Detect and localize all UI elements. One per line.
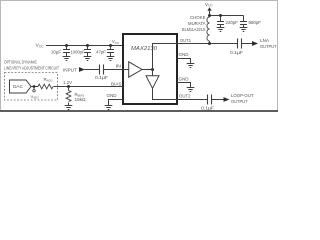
svg-text:1000pF: 1000pF: [71, 49, 85, 54]
ground: [84, 56, 92, 58]
capacitor C 0.1uF input coupling: [99, 65, 101, 75]
node junction: [86, 44, 89, 47]
node 220pF junction: [219, 14, 222, 17]
wire bias net: [54, 86, 124, 88]
ground under RBIAS: [65, 105, 73, 107]
svg-text:OUTPUT: OUTPUT: [231, 99, 248, 105]
figure bottom rule: [0, 110, 278, 112]
ground: [63, 56, 71, 58]
svg-text:OPTIONAL DYNAMIC: OPTIONAL DYNAMIC: [4, 60, 37, 65]
node LOOP-OUT OUTPUT: [224, 97, 230, 102]
svg-text:DAC: DAC: [13, 84, 23, 90]
amplifier A2 loop-out buffer: [146, 76, 159, 89]
wire VCC right rail: [210, 15, 244, 17]
svg-text:LNA: LNA: [260, 38, 270, 44]
wire to loop-out arrow: [212, 99, 224, 101]
ground: [107, 56, 115, 58]
svg-text:OUTPUT: OUTPUT: [260, 44, 277, 50]
svg-text:10µF: 10µF: [51, 49, 61, 54]
wire DAC output: [31, 86, 38, 88]
wire OUT2: [177, 99, 208, 101]
svg-text:INPUT: INPUT: [63, 67, 77, 73]
DAC U2: [10, 80, 32, 93]
node VADJ junction: [33, 85, 36, 88]
wire to OUT2: [153, 88, 178, 99]
wire to OUT1: [153, 44, 178, 76]
capacitor 1000pF bypass: [87, 46, 89, 50]
svg-text:LINEARITY ADJUSTMENT CIRCUIT: LINEARITY ADJUSTMENT CIRCUIT: [4, 66, 59, 71]
svg-text:LOOP-OUT: LOOP-OUT: [231, 93, 254, 99]
ground right 1: [187, 63, 195, 65]
svg-text:OUT2: OUT2: [179, 94, 191, 100]
capacitor 10&#181;F bypass: [66, 46, 68, 50]
svg-text:MURATA: MURATA: [188, 21, 206, 26]
capacitor C 680pF: [243, 16, 245, 22]
wire GND1 stub: [177, 59, 191, 64]
amplifier A1 LNA: [129, 62, 142, 77]
dashed box optional circuit: [5, 73, 58, 101]
wire to IN pin: [104, 69, 129, 71]
wire LNA output: [242, 43, 252, 45]
capacitor C 0.1uF LNA output coupling: [237, 39, 239, 49]
inductor L1 choke: [207, 17, 210, 41]
svg-text:BLM11A221S: BLM11A221S: [182, 27, 206, 32]
wire input: [85, 69, 100, 71]
wire left GND stub: [109, 100, 124, 106]
wire OUT1: [177, 43, 237, 45]
svg-text:IN: IN: [116, 63, 122, 69]
ground under 680pF: [240, 27, 248, 29]
node internal junction: [151, 68, 154, 71]
node junction: [109, 44, 112, 47]
wire GND2 stub: [177, 83, 191, 88]
svg-text:GND: GND: [179, 76, 189, 82]
svg-text:MAX2130: MAX2130: [131, 46, 158, 52]
ground under 220pF: [217, 27, 225, 29]
capacitor C 0.1uF loop-out coupling: [207, 95, 209, 105]
node junction: [65, 44, 68, 47]
svg-text:0.1µF: 0.1µF: [230, 50, 243, 55]
svg-text:0.1µF: 0.1µF: [95, 75, 108, 80]
svg-text:0.1µF: 0.1µF: [201, 105, 214, 110]
figure frame: [1, 1, 278, 111]
ground left: [105, 105, 113, 107]
node VADJ terminal: [33, 88, 35, 90]
svg-text:OUT1: OUT1: [180, 38, 191, 44]
node LNA OUTPUT: [252, 41, 258, 46]
svg-text:CHOKE: CHOKE: [190, 15, 206, 20]
capacitor C 220pF: [220, 16, 222, 22]
node choke top junction: [208, 14, 211, 17]
svg-text:680pF: 680pF: [249, 20, 262, 25]
node 1.2V: [67, 85, 70, 88]
ground right 2: [187, 87, 195, 89]
svg-text:GND: GND: [107, 93, 117, 99]
svg-text:15kΩ: 15kΩ: [75, 97, 87, 102]
svg-text:GND: GND: [179, 52, 189, 58]
op-amp U1 MAX2130 box: [123, 34, 177, 104]
svg-text:1.2V: 1.2V: [63, 80, 72, 85]
capacitor 47pF bypass: [110, 46, 112, 50]
wire amp1 output: [142, 69, 153, 71]
resistor RBIAS 15k: [68, 87, 70, 91]
svg-text:47pF: 47pF: [96, 49, 106, 54]
resistor RADJ: [38, 84, 53, 89]
svg-text:220pF: 220pF: [226, 20, 239, 25]
wire VCC rail: [46, 45, 123, 47]
node choke bottom junction: [208, 42, 211, 45]
